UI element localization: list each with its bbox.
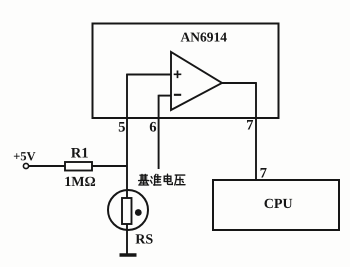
+5V terminal: [23, 163, 28, 168]
sensor RS body: [122, 198, 132, 224]
label R1: [71, 148, 88, 158]
sensor dot: [135, 209, 142, 216]
wire R1 to node junction: [92, 165, 127, 167]
label CPU: [264, 199, 292, 208]
pin 7 label: [247, 120, 253, 129]
resistor R1: [65, 162, 92, 171]
wire pin 6 vertical: [158, 95, 160, 169]
label AN6914: [181, 33, 227, 42]
op-amp U1: [171, 52, 222, 110]
wire pin 5 vertical: [126, 74, 128, 199]
wire pin 7 vertical to CPU: [255, 82, 257, 180]
ground: [120, 253, 137, 256]
label +5V: [14, 152, 36, 160]
label RS: [136, 234, 153, 243]
op-amp plus marking: [174, 71, 182, 79]
sensor RS circle: [108, 190, 148, 230]
wire inverting input: [159, 95, 171, 97]
wire +5V to R1: [29, 165, 65, 167]
op-amp minus marking: [174, 94, 181, 96]
CPU pin 7 label: [261, 168, 267, 177]
wire noninverting input: [127, 74, 171, 76]
pin 5 label: [119, 122, 125, 132]
pin 6 label: [150, 122, 156, 132]
label reference voltage 基准电压: [139, 174, 185, 185]
label 1M ohm: [65, 177, 95, 186]
CPU block: [213, 180, 339, 230]
IC block AN6914: [93, 24, 279, 119]
wire op-amp output: [222, 82, 256, 84]
wire sensor to ground: [126, 224, 128, 254]
